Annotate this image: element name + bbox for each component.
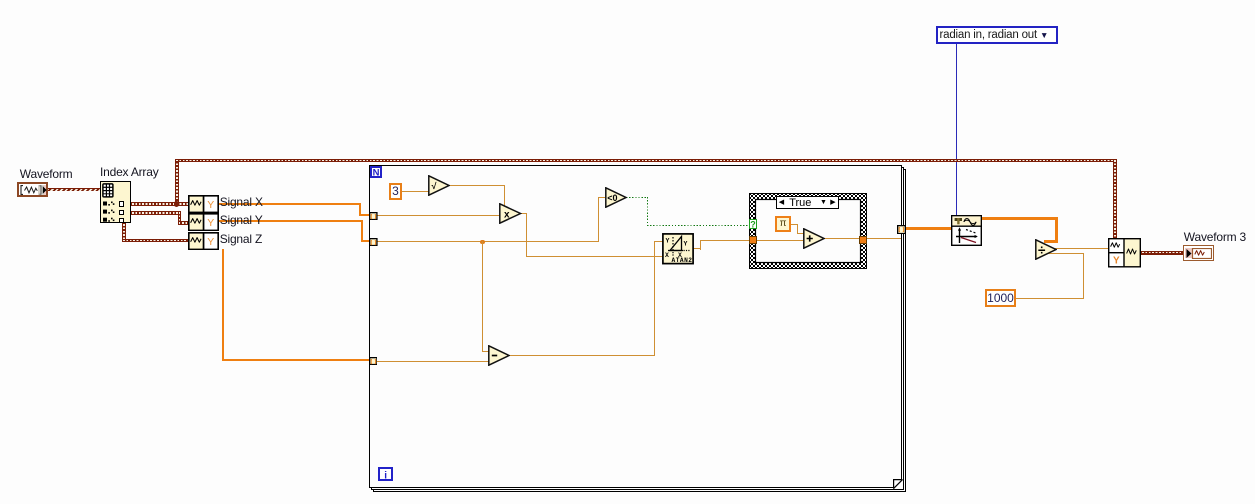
get waveform components node Signal X — [188, 195, 219, 213]
waveform indicator Waveform 3 — [1183, 245, 1214, 260]
wire: index array row2 to Signal Y — [131, 211, 181, 215]
loop tunnel 1 (Signal X, indexing) — [369, 212, 378, 220]
loop tunnel 2 (Signal Y, indexing) — [369, 238, 378, 246]
add function triangle — [803, 228, 825, 249]
case selector label "True" — [776, 196, 839, 209]
wire: subtract output to atan2 y input — [509, 355, 655, 356]
enum constant radian in, radian out — [936, 26, 1059, 44]
wire: tunnel1 to multiply — [377, 215, 500, 216]
svg-text:Y: Y — [208, 218, 215, 229]
waveform array control terminal — [17, 182, 48, 197]
get waveform components node Signal Y — [188, 213, 219, 231]
wire: waveform array from junction up — [175, 159, 179, 204]
pi constant — [775, 216, 791, 232]
label Waveform — [20, 168, 73, 180]
loop exit tunnel (indexing, builds array) — [897, 225, 906, 234]
svg-text:Y: Y — [665, 238, 669, 245]
label Index Array — [100, 166, 159, 178]
index array node — [100, 181, 131, 223]
wire: tunnel2 run to less-than-zero — [377, 241, 599, 242]
subtract function triangle — [488, 345, 510, 366]
svg-text:X: X — [665, 252, 669, 259]
multiply function triangle — [499, 203, 522, 224]
wire: 1000 constant to divide bottom input — [1016, 298, 1084, 299]
wire: waveform array down to build waveform node — [1113, 159, 1117, 239]
wire: loop exit to conversion node (thick orange array) — [906, 227, 952, 230]
wire: atan2 output to case tunnel — [693, 248, 701, 249]
wire: Signal Y array to loop tunnel 2 — [219, 220, 363, 222]
build waveform node — [1108, 238, 1141, 268]
wire: conversion node output to divide (thick orange array) — [982, 217, 1058, 220]
numeric constant 1000 — [985, 289, 1016, 307]
N count terminal — [370, 166, 382, 178]
less-than-zero comparison triangle — [605, 187, 627, 208]
label Signal Y — [220, 214, 263, 226]
index array input squares — [119, 201, 125, 207]
svg-text:?: ? — [750, 219, 756, 229]
wire: pi to add top input — [791, 224, 798, 225]
label Signal Z — [220, 233, 262, 245]
label Signal X — [220, 196, 263, 208]
svg-text:√: √ — [432, 181, 437, 191]
wire: tunnel3 to subtract bottom input — [377, 361, 490, 362]
wire: index array row3 to Signal Z — [122, 223, 126, 242]
loop tunnel 3 (Signal Z, indexing) — [369, 357, 378, 365]
for loop frame N=... main frame — [369, 165, 902, 489]
wire: boolean dotted from less-than-zero to case selector — [626, 197, 649, 198]
divide function triangle — [1035, 239, 1057, 260]
svg-text:Y: Y — [208, 237, 215, 248]
junction dot on waveform wire — [174, 201, 179, 206]
case output tunnel (orange) — [859, 236, 867, 244]
wire: Signal Z array to loop tunnel 3 — [222, 249, 224, 361]
get waveform components node Signal Z — [188, 232, 219, 250]
wire: multiply output to atan2 x input — [521, 213, 527, 214]
svg-text:÷: ÷ — [1038, 242, 1046, 257]
svg-text:ATAN2: ATAN2 — [671, 257, 692, 264]
wire: case tunnel to add bottom input — [757, 240, 804, 241]
wire: build waveform output to indicator — [1141, 251, 1183, 255]
wire: add output to case out tunnel — [824, 238, 860, 239]
case selector ? terminal — [749, 219, 757, 230]
wire: waveform control to index array — [48, 188, 101, 192]
wire: 3 constant to sqrt — [402, 191, 429, 192]
wire: index array row1 to Signal X — [131, 202, 189, 206]
junction dot on tunnel2 wire — [480, 240, 485, 245]
svg-text:N: N — [373, 168, 380, 179]
for loop frame back sheet 3 — [373, 169, 906, 493]
numeric constant 3 — [389, 183, 402, 200]
for loop frame back sheet 2 — [371, 167, 904, 491]
svg-text:i: i — [385, 470, 388, 481]
wire: sqrt output to multiply top input — [449, 185, 506, 186]
wire: divide output to build waveform — [1055, 248, 1108, 249]
atan2 function node — [662, 233, 694, 265]
label Waveform 3 — [1184, 231, 1246, 243]
svg-text:Y: Y — [683, 241, 687, 248]
case structure frame (checkered border) — [749, 193, 867, 269]
index array row glyphs — [103, 201, 115, 223]
wire: waveform array long run across top — [175, 159, 1117, 163]
square root function triangle — [428, 175, 450, 196]
wire: case output to loop border — [867, 238, 902, 239]
i iteration terminal — [378, 467, 393, 482]
wire: branch down to subtract top input — [482, 241, 483, 352]
svg-text:<0: <0 — [607, 193, 617, 203]
conversion node (hammer + sine / scaling icon) — [951, 215, 982, 246]
svg-text:x: x — [504, 210, 510, 221]
svg-text:Y: Y — [208, 200, 215, 211]
blue property wire from dropdown down to conversion node — [956, 44, 957, 215]
for loop page-curl corner — [893, 479, 903, 489]
wire: Signal X array to loop tunnel 1 — [219, 203, 362, 205]
case input tunnel (orange) — [749, 236, 758, 244]
svg-text:Y: Y — [1113, 256, 1120, 267]
